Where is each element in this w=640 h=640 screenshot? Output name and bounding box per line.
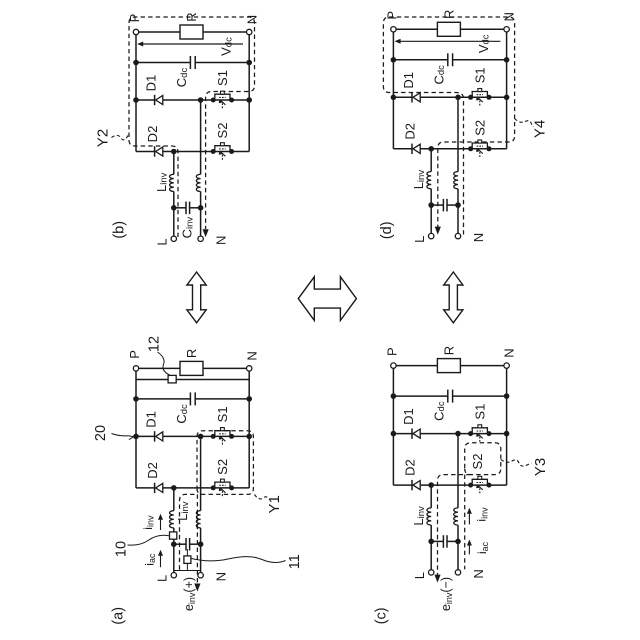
wire: sensor 11 lower stub (a) [186,563,188,570]
svg-text:Y1: Y1 [266,495,283,513]
wire: row2 mid (d) [420,148,506,150]
svg-text:N: N [244,351,259,360]
wire: row2 mid (c) [420,484,506,486]
terminal P (a) [133,366,138,371]
wire: phase line lower (d) [457,189,459,205]
wire: L stub (a) [173,544,175,572]
inductor Linv coil2 (d) [454,172,458,189]
wire: P feed to R (d) [393,28,437,30]
wire: left DC bus (b) [135,32,137,152]
voltage sensor 12 (a) [168,375,176,383]
wire: row1 left (b) [136,99,155,101]
inductor Linv coil1 (b) [169,174,173,191]
svg-text:L: L [155,575,170,582]
svg-text:Y4: Y4 [532,120,549,138]
inductor Linv coil1 (d) [427,172,431,189]
junction: Cinv right node (c) [455,539,461,545]
svg-text:L: L [412,572,427,579]
svg-text:P: P [384,11,399,20]
wire: Cinv right (b) [190,207,201,209]
terminal N(dc) (b) [247,29,252,34]
transistor S1 (b) [211,98,216,103]
capacitor Cinv (a) [185,538,187,551]
transistor S2 (a) [211,485,216,490]
svg-text:S2: S2 [215,123,230,139]
svg-text:11: 11 [287,554,303,569]
leader Y2 [112,135,129,140]
junction: Cinv left node (a) [171,541,177,547]
wire: P feed to R (a) [136,367,180,369]
inductor Linv coil1 (a) [169,511,173,528]
wire: row2 mid (b) [163,151,249,153]
wire: row1 left (d) [393,96,412,98]
leader 10 [128,535,169,545]
Y3 dashed tail to N [464,475,466,570]
wire: output line1 upper (d) [430,149,432,172]
resistor R (d) [437,22,460,36]
terminal P (d) [391,27,396,32]
wire: Cinv right (c) [447,540,458,542]
wire: phase line upper (b) [200,100,202,174]
junction: Cdc bus left (d) [391,57,397,63]
terminal N(ac) (c) [455,570,460,575]
svg-text:R: R [441,10,456,19]
junction: row1-left bus (a) [133,434,139,440]
diode D2 (a) [154,483,156,493]
i_ac arrow (a) [160,553,162,568]
junction: inductor tap (d) [428,146,434,152]
svg-text:S2: S2 [215,459,230,475]
wire: row1 mid (d) [420,96,506,98]
svg-text:D1: D1 [144,75,159,92]
wire: N stub (b) [200,208,202,236]
i_inv arrow (c) [468,511,470,525]
svg-text:(a): (a) [111,607,127,625]
wire: N stub (c) [457,541,459,569]
junction: Cdc bus left (b) [133,60,139,66]
resistor R (c) [437,359,460,373]
wire: output line1 upper (b) [173,152,175,175]
svg-text:N: N [471,233,486,242]
transistor S1 (d) [468,95,473,100]
circuit (b) Y2 dashed current-path [129,17,255,237]
wire: P feed to R (b) [136,31,180,33]
svg-text:R: R [441,346,456,355]
junction: row1-left bus (c) [391,431,397,437]
svg-text:N: N [244,15,259,24]
svg-text:(d): (d) [379,221,395,239]
inductor Linv coil1 (c) [427,508,431,525]
junction: row1-right bus (a) [246,434,252,440]
Y4 path arrowhead at L [435,227,441,235]
wire: L stub (c) [430,541,432,569]
wire: sense cross line (a) [174,570,201,572]
wire: P feed to R (c) [393,365,437,367]
wire: phase line upper (a) [200,436,202,510]
wire: left DC bus (d) [392,29,394,149]
svg-text:S1: S1 [215,70,230,86]
junction: row1-left bus (d) [391,95,397,101]
junction: Cdc bus right (d) [504,57,510,63]
Vdc arrowhead (b) [137,42,143,47]
double arrow between (b) and (a) [187,272,206,323]
double arrow between (d) and (c) [444,272,463,323]
wire: R to N (a) [203,367,249,369]
diode D1 (c) [411,428,413,438]
wire: right DC bus (c) [506,366,508,486]
leader 11 [192,557,286,563]
transistor S1 (a) [211,434,216,439]
wire: row1 mid (b) [163,99,249,101]
junction: phase node (b) [198,97,204,103]
wire: Cinv right (a) [190,543,201,545]
wire: row1 mid (a) [163,435,249,437]
wire: output line1 lower (c) [430,525,432,541]
wire: N stub (d) [457,205,459,233]
wire: phase line upper (c) [457,434,459,508]
wire: right DC bus (b) [248,32,250,152]
junction: Cdc bus right (a) [246,396,252,402]
svg-text:P: P [127,350,142,359]
terminal L (b) [171,236,176,241]
svg-text:R: R [184,12,199,21]
svg-text:D2: D2 [402,459,417,476]
wire: row1 left (a) [136,435,155,437]
terminal L (a) [171,573,176,578]
terminal N(dc) (d) [504,27,509,32]
resistor R (a) [180,361,203,375]
Vdc arrowhead (d) [395,39,401,44]
wire: sensor 11 upper stub (a) [186,549,188,556]
leader Y4 [515,119,534,128]
leader 12 [158,352,171,375]
wire: phase line upper (d) [457,97,459,171]
wire: phase line lower (a) [200,528,202,544]
inductor Linv coil2 (b) [196,174,200,191]
wire: Vdc sense line right (a) [176,379,249,381]
Vdc measure arrow (d) [396,40,500,42]
junction: row1-right bus (b) [246,97,252,103]
i_inv arrow (a) [160,517,162,531]
wire: Cdc bus right (a) [195,398,249,400]
Y1 dashed tail to e_inv arrow [196,494,198,584]
svg-text:N: N [502,348,517,357]
capacitor Cdc (c) [447,390,449,403]
wire: Cinv right (d) [447,204,458,206]
junction: Cinv left node (c) [428,539,434,545]
Y2 path arrowhead at N [203,229,209,237]
junction: phase node (d) [455,95,461,101]
wire: left DC bus (c) [392,366,394,486]
wire: Cinv left (d) [431,204,443,206]
wire: Cdc bus left (b) [136,62,190,64]
diode D2 (d) [411,144,413,154]
wire: right DC bus (d) [506,29,508,149]
transistor S1 (c) [468,431,473,436]
inductor Linv coil2 (c) [454,508,458,525]
wire: Cinv left (c) [431,540,443,542]
diode D1 (b) [154,95,156,105]
capacitor Cinv (b) [185,202,187,215]
svg-text:N: N [214,236,229,245]
svg-text:S2: S2 [472,120,487,136]
terminal P (c) [391,363,396,368]
terminal L (d) [429,233,434,238]
diode D2 (b) [154,146,156,156]
transistor S2 (c) [468,483,473,488]
inductor Linv coil2 (a) [196,511,200,528]
wire: R to N (c) [460,365,506,367]
resistor R (b) [180,25,203,39]
wire: Cinv left (a) [174,543,186,545]
i_ac arrow (c) [468,542,470,554]
junction: Cdc bus right (b) [246,60,252,66]
terminal N(ac) (d) [455,233,460,238]
svg-text:D1: D1 [401,72,416,89]
wire: R to N (b) [203,31,249,33]
wire: row1 left (c) [393,433,412,435]
junction: row1-left bus (b) [133,97,139,103]
wire: output line1 lower (b) [173,192,175,208]
capacitor Cinv (d) [442,199,444,212]
svg-text:N: N [471,569,486,578]
junction: Cinv left node (d) [428,202,434,208]
junction: Cinv right node (a) [198,541,204,547]
capacitor Cdc (d) [447,53,449,66]
diode D1 (a) [154,431,156,441]
pointer arrow 20 [112,434,129,436]
svg-text:L: L [412,236,427,243]
svg-text:(b): (b) [112,221,128,239]
Y3 dashed tail to e_inv arrow [438,475,471,575]
svg-text:S2: S2 [470,454,485,470]
wire: L stub (b) [173,208,175,236]
svg-text:(c): (c) [374,607,390,624]
junction: Cinv right node (d) [455,202,461,208]
junction: Cinv left node (b) [171,205,177,211]
wire: output line1 upper (c) [430,485,432,508]
e_inv(+) arrowhead [194,584,200,592]
svg-text:N: N [214,572,229,581]
terminal N(dc) (c) [504,363,509,368]
junction: inductor tap (c) [428,482,434,488]
junction: row1-right bus (c) [504,431,510,437]
junction: Cdc bus right (c) [504,393,510,399]
terminal P (b) [133,29,138,34]
svg-text:10: 10 [114,541,130,557]
Vdc measure arrow (b) [139,43,243,45]
svg-text:12: 12 [147,336,163,352]
svg-text:L: L [155,238,170,245]
svg-text:N: N [502,12,517,21]
diode D1 (d) [411,92,413,102]
wire: row1 mid (c) [420,433,506,435]
wire: row2 left (a) [136,487,155,489]
Y1 dashed tail to L [180,494,198,569]
wire: N stub (a) [200,544,202,572]
circuit (d) Y4 dashed current-path [383,17,514,235]
svg-text:D2: D2 [145,126,160,143]
wire: Cdc bus left (a) [136,398,190,400]
junction: inductor tap (a) [171,485,177,491]
junction: Cinv right node (b) [198,205,204,211]
svg-text:Y3: Y3 [532,458,549,476]
wire: right DC bus (a) [248,368,250,488]
wire: R to N (d) [460,28,506,30]
wire: Cdc bus right (b) [195,62,249,64]
terminal N(dc) (a) [247,366,252,371]
wire: phase line lower (c) [457,525,459,541]
leader Y1 [255,495,269,500]
wire: row2 left (b) [136,151,155,153]
svg-text:D2: D2 [402,123,417,140]
wire: output line1 upper (a) [173,488,175,511]
terminal N(ac) (b) [198,236,203,241]
junction: Cdc bus left (a) [133,396,139,402]
capacitor Cdc (a) [189,392,191,405]
svg-text:20: 20 [93,425,109,441]
wire: output line1 lower (a) [173,528,175,544]
wire: row2 left (c) [393,484,412,486]
transistor S2 (b) [211,149,216,154]
wire: Cdc bus left (c) [393,395,447,397]
current sensor 10 (a) [170,532,177,539]
svg-text:S1: S1 [215,406,230,422]
svg-text:R: R [184,349,199,358]
svg-text:D2: D2 [145,462,160,479]
leader Y3 [501,460,532,467]
wire: Cinv left (b) [174,207,186,209]
terminal N(ac) (a) [198,573,203,578]
wire: row2 mid (a) [163,487,249,489]
wire: left DC bus (a) [135,368,137,488]
diode D2 (c) [411,480,413,490]
svg-text:D1: D1 [144,411,159,428]
svg-text:S1: S1 [472,67,487,83]
junction: Cdc bus left (c) [391,393,397,399]
circuit (c) Y3 dashed loop [465,443,501,475]
junction: phase node (c) [455,431,461,437]
capacitor Cinv (c) [442,535,444,548]
capacitor Cdc (b) [189,56,191,69]
e_inv(-) arrowhead (c) [434,575,440,583]
voltage sensor 11 (a) [184,556,191,564]
double arrow center [298,277,356,321]
svg-text:P: P [384,347,399,356]
svg-text:D1: D1 [401,408,416,425]
junction: row1-right bus (d) [504,95,510,101]
junction: inductor tap (b) [171,149,177,155]
wire: row2 left (d) [393,148,412,150]
wire: Cdc bus right (c) [453,395,507,397]
circuit (a) Y1 dashed loop around S1,S2 [197,431,253,495]
junction: phase node (a) [198,434,204,440]
wire: phase line lower (b) [200,192,202,208]
wire: Vdc sense line left (a) [136,379,168,381]
terminal L (c) [429,570,434,575]
wire: L stub (d) [430,205,432,233]
wire: Cdc bus right (d) [453,59,507,61]
transistor S2 (d) [468,146,473,151]
wire: output line1 lower (d) [430,189,432,205]
svg-text:Y2: Y2 [94,129,111,147]
svg-text:P: P [127,14,142,23]
wire: Cdc bus left (d) [393,59,447,61]
svg-text:S1: S1 [472,404,487,420]
